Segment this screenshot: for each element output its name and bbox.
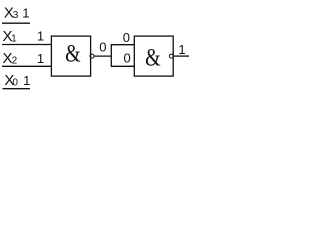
svg-text:1: 1 [37,29,44,44]
wire U2 output [174,55,190,57]
wire U1 output to node [94,55,111,57]
wire X3 [2,22,30,24]
svg-text:1: 1 [37,51,44,66]
label X0 [4,72,18,89]
svg-text:3: 3 [13,10,19,21]
svg-text:1: 1 [23,73,30,88]
svg-text:0: 0 [99,40,106,55]
svg-text:&: & [145,43,161,71]
NAND gate U1 symbol & [65,40,81,68]
svg-text:1: 1 [11,34,17,45]
label X1 [3,28,18,45]
svg-text:1: 1 [22,6,29,21]
svg-text:0: 0 [12,78,18,89]
NAND gate U2 output bubble [169,54,173,58]
svg-text:2: 2 [12,56,18,67]
svg-text:&: & [65,40,81,68]
label X3 [4,4,19,21]
NAND gate U1 output bubble [90,54,94,58]
NAND gate U1 body [51,36,90,76]
svg-text:0: 0 [123,30,130,45]
wire X1 to gate U1 input a [2,44,52,46]
wire X2 to gate U1 input b [2,65,52,67]
NAND gate U2 body [134,36,173,76]
wire node to U2 input a [111,44,135,46]
node: fanout split vertical [110,45,112,67]
svg-text:1: 1 [178,42,185,57]
label X2 [3,50,18,67]
wire X0 [3,88,31,90]
svg-text:0: 0 [124,51,131,66]
wire node to U2 input b [111,65,135,67]
NAND gate U2 symbol & [145,43,161,71]
